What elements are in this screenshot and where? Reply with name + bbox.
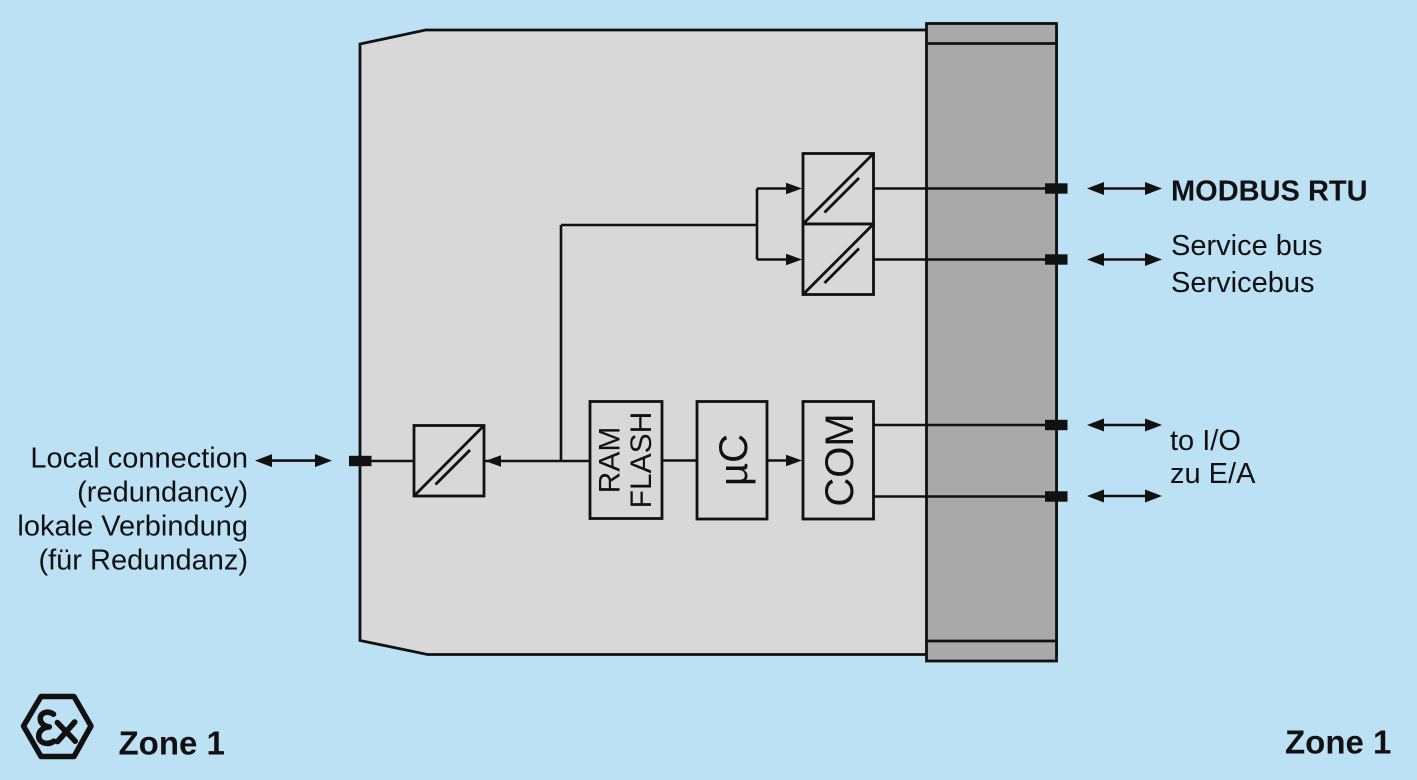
svg-text:COM: COM bbox=[818, 413, 862, 506]
svg-text:lokale Verbindung: lokale Verbindung bbox=[17, 511, 248, 543]
svg-text:Servicebus: Servicebus bbox=[1171, 267, 1314, 299]
svg-text:Local connection: Local connection bbox=[30, 443, 248, 475]
svg-text:µC: µC bbox=[712, 434, 756, 486]
svg-text:FLASH: FLASH bbox=[625, 412, 658, 509]
svg-text:(redundancy): (redundancy) bbox=[77, 477, 248, 509]
svg-text:Zone 1: Zone 1 bbox=[119, 725, 225, 762]
svg-text:MODBUS RTU: MODBUS RTU bbox=[1171, 176, 1368, 208]
svg-text:(für Redundanz): (für Redundanz) bbox=[38, 545, 248, 577]
svg-text:RAM: RAM bbox=[594, 427, 627, 494]
svg-text:zu E/A: zu E/A bbox=[1170, 458, 1256, 490]
svg-text:to I/O: to I/O bbox=[1170, 425, 1241, 457]
svg-text:Service bus: Service bus bbox=[1171, 230, 1323, 262]
svg-text:Zone 1: Zone 1 bbox=[1285, 724, 1391, 761]
